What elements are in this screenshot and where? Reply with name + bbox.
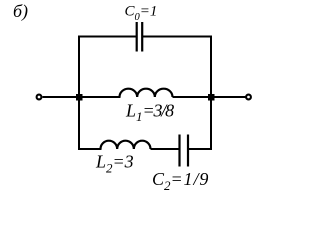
wire bottom rail L2 to C2 bbox=[151, 148, 180, 150]
node A junction dot bbox=[76, 94, 83, 101]
wire node B to right terminal bbox=[211, 96, 246, 98]
node B junction dot bbox=[208, 94, 215, 101]
svg-text:C2=1/9: C2=1/9 bbox=[152, 169, 209, 193]
wire left terminal to node A bbox=[43, 96, 80, 98]
wire middle rail left of L1 bbox=[78, 96, 121, 98]
right terminal bbox=[246, 95, 251, 100]
capacitor C2 bbox=[180, 135, 189, 167]
left terminal bbox=[37, 95, 42, 100]
svg-text:б): б) bbox=[13, 1, 28, 22]
inductor L2 bbox=[101, 141, 151, 149]
wire top rail left of C0 bbox=[78, 36, 137, 38]
inductor L1 bbox=[120, 89, 173, 97]
wire bottom rail left of L2 bbox=[78, 148, 102, 150]
svg-text:C0=1: C0=1 bbox=[125, 4, 158, 24]
svg-text:L2=3: L2=3 bbox=[95, 152, 134, 176]
wire bottom rail right of C2 bbox=[188, 148, 212, 150]
svg-text:L1=3/8: L1=3/8 bbox=[125, 101, 174, 125]
wire left vertical branch bbox=[78, 36, 80, 150]
wire middle rail right of L1 bbox=[173, 96, 213, 98]
capacitor C0 bbox=[137, 22, 143, 52]
wire right vertical branch bbox=[210, 36, 212, 150]
wire top rail right of C0 bbox=[142, 36, 212, 38]
